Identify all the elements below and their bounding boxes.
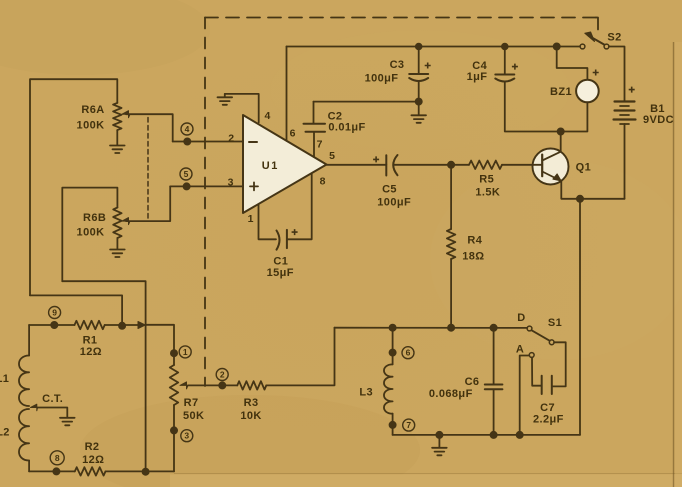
svg-text:C6: C6 bbox=[465, 376, 480, 388]
svg-text:100μF: 100μF bbox=[377, 197, 411, 209]
svg-text:C2: C2 bbox=[328, 111, 343, 123]
svg-text:10K: 10K bbox=[240, 410, 261, 422]
svg-text:100μF: 100μF bbox=[365, 73, 399, 85]
resistor R3 bbox=[237, 381, 266, 389]
plus C5 bbox=[373, 156, 379, 162]
node circled 1 bbox=[179, 346, 191, 358]
svg-text:R6A: R6A bbox=[81, 104, 104, 116]
svg-text:1: 1 bbox=[183, 347, 188, 357]
svg-text:100K: 100K bbox=[77, 227, 105, 239]
svg-text:9: 9 bbox=[52, 308, 57, 318]
node C6 top junction bbox=[491, 325, 497, 331]
svg-text:1μF: 1μF bbox=[467, 71, 488, 83]
node ground junction bbox=[436, 432, 442, 438]
wire R2 to R7 bottom bbox=[106, 470, 175, 472]
node A branch junction bbox=[517, 432, 523, 438]
capacitor C7 bbox=[542, 376, 552, 394]
svg-text:R3: R3 bbox=[244, 397, 259, 409]
plus C4 bbox=[512, 64, 518, 70]
ground at pin4 bbox=[218, 94, 233, 105]
wire R6A feed down bbox=[30, 295, 122, 325]
wire A contact to C7 left bbox=[532, 358, 541, 386]
wire pin4 to ground bbox=[225, 94, 259, 123]
svg-text:3: 3 bbox=[184, 431, 189, 441]
node R7 terminal 3 bbox=[171, 427, 177, 433]
svg-text:4: 4 bbox=[185, 124, 190, 134]
node circled 6 bbox=[402, 347, 414, 359]
dashed gang link R6A-R6B bbox=[147, 118, 149, 219]
wire A contact to bottom rail bbox=[520, 356, 530, 435]
svg-text:R6B: R6B bbox=[83, 212, 106, 224]
svg-text:C3: C3 bbox=[390, 59, 405, 71]
svg-text:12Ω: 12Ω bbox=[80, 346, 102, 358]
node pin3 terminal bbox=[184, 183, 190, 189]
transistor Q1 bbox=[533, 149, 569, 185]
ground below C3 bbox=[411, 102, 426, 123]
svg-text:5: 5 bbox=[184, 169, 189, 179]
svg-text:S1: S1 bbox=[548, 317, 562, 329]
node circled 4 bbox=[181, 123, 193, 135]
op-amp minus sign bbox=[249, 141, 257, 143]
svg-text:0.068μF: 0.068μF bbox=[429, 388, 473, 400]
svg-text:R2: R2 bbox=[85, 441, 100, 453]
potentiometer R7 bbox=[170, 365, 188, 471]
dashed module outline left bbox=[204, 18, 206, 387]
node pin2 terminal bbox=[184, 138, 190, 144]
wire R6B wiper to pin3 bbox=[126, 186, 170, 221]
node circled 3 bbox=[181, 430, 193, 442]
right page-edge line bbox=[673, 42, 675, 487]
node L3 top junction bbox=[390, 325, 396, 331]
plus BZ1 bbox=[593, 70, 599, 76]
potentiometer R6B bbox=[62, 188, 130, 282]
wire BZ1 bottom bbox=[561, 102, 588, 131]
wire to R7 top bbox=[146, 325, 174, 365]
svg-text:6: 6 bbox=[406, 348, 411, 358]
svg-text:R5: R5 bbox=[479, 174, 494, 186]
svg-text:8: 8 bbox=[55, 453, 60, 463]
wire bottom-left rail bbox=[29, 470, 75, 472]
node terminal 8 bbox=[53, 468, 59, 474]
capacitor C6 bbox=[485, 328, 503, 435]
wire R7 wiper to R3 bbox=[188, 384, 237, 386]
potentiometer R6A bbox=[30, 79, 130, 295]
wire pin2 input bbox=[173, 141, 243, 143]
dashed module outline top bbox=[205, 18, 598, 34]
svg-text:S2: S2 bbox=[607, 32, 621, 44]
capacitor C5 bbox=[327, 155, 452, 176]
center tap C.T. bbox=[31, 404, 68, 417]
node terminal 9 bbox=[51, 322, 57, 328]
wire S1 pivot to C7 right bbox=[553, 342, 566, 386]
plus C3 bbox=[425, 63, 431, 69]
svg-text:U1: U1 bbox=[262, 160, 279, 172]
capacitor C3 bbox=[409, 47, 428, 102]
circled terminal numbers bbox=[49, 123, 415, 465]
wire pin3 input bbox=[170, 185, 243, 187]
svg-text:18Ω: 18Ω bbox=[462, 251, 484, 263]
svg-text:5: 5 bbox=[329, 150, 335, 162]
ground below tank rail bbox=[432, 435, 447, 455]
node emitter rail junction bbox=[577, 196, 583, 202]
svg-text:0.01μF: 0.01μF bbox=[328, 122, 365, 134]
svg-text:7: 7 bbox=[406, 420, 411, 430]
capacitor C1 loop pin1-pin8 bbox=[259, 174, 312, 250]
node collector junction bbox=[558, 128, 564, 134]
resistor R5 bbox=[451, 161, 502, 169]
op-amp pin numbers bbox=[228, 110, 336, 225]
svg-text:A: A bbox=[516, 344, 524, 356]
svg-text:R7: R7 bbox=[184, 397, 199, 409]
wire R3 to tank rail bbox=[266, 328, 334, 386]
svg-text:2: 2 bbox=[228, 133, 234, 145]
wire battery to emitter rail bbox=[624, 124, 626, 199]
svg-text:BZ1: BZ1 bbox=[550, 86, 572, 98]
svg-text:8: 8 bbox=[320, 176, 326, 188]
resistor R4 bbox=[447, 165, 455, 328]
plus polarity marks bbox=[292, 63, 635, 236]
wire V+ rail bbox=[287, 46, 581, 48]
wire emitter down and rail bbox=[561, 181, 624, 199]
transformer L1 bbox=[19, 325, 29, 406]
node L3 terminal 6 bbox=[390, 350, 396, 356]
node circled 8 bbox=[50, 451, 64, 465]
ground below R6A bbox=[110, 130, 125, 153]
wire R1 line with arrow bbox=[29, 322, 145, 329]
capacitor C4 bbox=[495, 47, 557, 132]
svg-text:15μF: 15μF bbox=[267, 267, 294, 279]
svg-text:C5: C5 bbox=[382, 183, 397, 195]
svg-text:50K: 50K bbox=[183, 410, 204, 422]
node circled 7 bbox=[403, 419, 415, 431]
svg-text:1.5K: 1.5K bbox=[475, 186, 500, 198]
node R4 bottom junction bbox=[448, 325, 454, 331]
op-amp plus sign bbox=[250, 182, 258, 190]
node R7 terminal 1 bbox=[171, 350, 177, 356]
op-amp U1 bbox=[243, 115, 327, 213]
svg-text:4: 4 bbox=[264, 110, 270, 122]
svg-text:L3: L3 bbox=[359, 387, 373, 399]
node circled 5 bbox=[180, 168, 192, 180]
node R6A feed junction bbox=[119, 323, 125, 329]
node C3 bottom junction bbox=[416, 99, 422, 105]
wire bottom tank rail bbox=[393, 434, 580, 436]
bottom page-edge strip bbox=[170, 475, 682, 487]
wire tank rail bbox=[335, 327, 528, 329]
battery B1 bbox=[614, 102, 636, 125]
svg-text:9VDC: 9VDC bbox=[643, 114, 674, 126]
svg-text:6: 6 bbox=[290, 128, 296, 140]
svg-text:1: 1 bbox=[248, 213, 254, 225]
wire S2 to battery bbox=[609, 47, 625, 101]
svg-text:2.2μF: 2.2μF bbox=[533, 413, 564, 425]
svg-text:R1: R1 bbox=[83, 335, 98, 347]
svg-text:Q1: Q1 bbox=[576, 162, 591, 174]
svg-text:2: 2 bbox=[220, 370, 225, 380]
svg-text:L1: L1 bbox=[0, 373, 9, 385]
svg-text:L2: L2 bbox=[0, 427, 10, 439]
plus B1 bbox=[629, 87, 635, 93]
node circled 9 bbox=[49, 307, 61, 319]
wire R6B feed vertical bbox=[62, 281, 145, 472]
svg-text:C.T.: C.T. bbox=[42, 393, 63, 405]
node C4 top junction bbox=[502, 44, 508, 50]
svg-text:100K: 100K bbox=[77, 120, 105, 132]
node R6B feed bottom junction bbox=[143, 469, 149, 475]
node terminal 2 bbox=[219, 382, 225, 388]
svg-text:D: D bbox=[517, 312, 525, 324]
svg-text:C7: C7 bbox=[540, 402, 555, 414]
node C6 bottom junction bbox=[491, 432, 497, 438]
wire pin6 to V+ rail bbox=[286, 47, 288, 141]
switch S2 bbox=[580, 32, 609, 49]
node C5/R5/R4 junction bbox=[448, 162, 454, 168]
switch S1 bbox=[527, 326, 554, 357]
plus C1 bbox=[292, 229, 298, 235]
wire BZ1 top branch bbox=[557, 47, 588, 80]
wire Q1 base lead bbox=[502, 164, 542, 166]
svg-text:7: 7 bbox=[317, 139, 323, 151]
inductor L3 bbox=[384, 328, 393, 435]
resistor R1 bbox=[75, 321, 105, 329]
buzzer BZ1 bbox=[576, 80, 599, 103]
node C3 top junction bbox=[416, 44, 422, 50]
svg-text:12Ω: 12Ω bbox=[82, 454, 104, 466]
svg-text:3: 3 bbox=[228, 177, 234, 189]
capacitor C2 bbox=[304, 102, 326, 157]
resistor R2 bbox=[75, 467, 106, 475]
wire R6A wiper to pin2 bbox=[126, 114, 173, 141]
wire collector bbox=[560, 132, 562, 152]
svg-text:C1: C1 bbox=[273, 256, 288, 268]
ground at center tap bbox=[60, 418, 75, 426]
wire C2/C3 ground link bbox=[314, 101, 419, 103]
node L3 terminal 7 bbox=[390, 422, 396, 428]
wire right drop to bottom rail bbox=[579, 199, 581, 435]
node circled 2 bbox=[216, 369, 228, 381]
node BZ1 branch junction bbox=[554, 43, 560, 49]
ground below R6B bbox=[110, 238, 125, 257]
svg-text:R4: R4 bbox=[467, 235, 482, 247]
transformer L2 bbox=[19, 409, 29, 471]
